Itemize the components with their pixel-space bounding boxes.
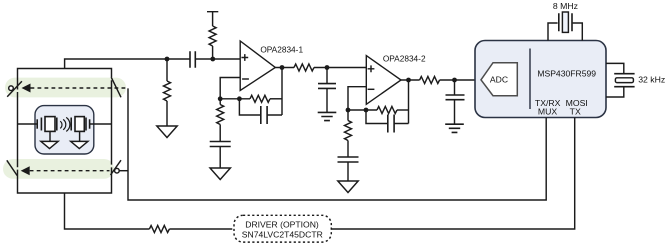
node xyxy=(364,108,369,113)
svg-text:MUX: MUX xyxy=(538,107,558,117)
capacitor C7 (ADC shunt) xyxy=(446,80,465,124)
resistor R4 (to gnd chain) xyxy=(217,99,224,142)
svg-text:OPA2834-2: OPA2834-2 xyxy=(383,54,426,64)
transducer frame (outer rectangle) xyxy=(18,69,112,194)
wire feedback vertical xyxy=(281,68,283,116)
horn right xyxy=(71,132,88,149)
node xyxy=(280,65,285,70)
wire midline left xyxy=(18,123,38,125)
node xyxy=(218,96,223,101)
wire RX from frame top xyxy=(65,59,190,69)
node xyxy=(237,96,242,101)
capacitor C5 (feedback) xyxy=(366,110,409,133)
MSP430FR599 MCU block xyxy=(475,41,606,118)
wire MOSI TX to driver xyxy=(330,118,575,230)
svg-text:DRIVER (OPTION): DRIVER (OPTION) xyxy=(245,219,319,229)
sound waves xyxy=(60,117,70,131)
transducer XDC2 (right) xyxy=(71,117,89,132)
wire midline right xyxy=(90,123,112,125)
op-amp U1A OPA2834-1 xyxy=(240,41,275,91)
resistor R5 (interstage) xyxy=(294,64,366,71)
green highlight band RX (top) xyxy=(5,78,126,98)
capacitor C6 xyxy=(338,157,359,181)
pin label TX/RX MUX xyxy=(535,98,561,117)
wire U1B output xyxy=(401,79,420,81)
capacitor C3 xyxy=(210,142,231,169)
svg-text:TX: TX xyxy=(570,107,581,117)
power rail bias xyxy=(207,12,218,26)
crystal Y2 32 kHz xyxy=(606,63,635,97)
node xyxy=(325,65,330,70)
wire inverting input U1B xyxy=(348,87,377,110)
pin label MOSI TX xyxy=(566,98,588,117)
capacitor C4 (interstage shunt) xyxy=(318,68,336,113)
svg-text:8 MHz: 8 MHz xyxy=(553,1,578,11)
resistor R7 (to gnd chain) xyxy=(345,110,352,157)
resistor R9 (driver series) xyxy=(149,226,232,233)
node xyxy=(165,57,170,62)
switch S3 (bottom-left) xyxy=(7,160,17,175)
wire inverting input U1A xyxy=(220,78,250,99)
switch S2 (top-right) xyxy=(111,77,121,97)
wire TX/RX MUX to switches xyxy=(128,88,546,200)
svg-text:OPA2834-1: OPA2834-1 xyxy=(260,44,303,54)
svg-text:SN74LVC2T45DCTR: SN74LVC2T45DCTR xyxy=(242,229,323,239)
resistor R1 (input shunt) xyxy=(164,59,171,126)
switch S1 (top-left) xyxy=(7,81,22,97)
ground xyxy=(157,126,177,138)
svg-text:32 kHz: 32 kHz xyxy=(638,75,665,85)
svg-text:ADC: ADC xyxy=(490,75,508,85)
green highlight band TX (bottom) xyxy=(3,159,114,179)
capacitor C1 (series input) xyxy=(190,51,240,68)
horn left xyxy=(41,132,58,149)
resistor R2 (bias pull-up) xyxy=(209,26,216,59)
node xyxy=(452,78,457,83)
node xyxy=(210,57,215,62)
driver block SN74LVC2T45DCTR xyxy=(234,215,331,242)
node xyxy=(406,78,411,83)
wire U1A output xyxy=(275,67,294,69)
node xyxy=(346,108,351,113)
op-amp U1B OPA2834-2 xyxy=(366,56,401,105)
divider xyxy=(529,49,531,110)
wire driver to transducer frame xyxy=(65,193,150,229)
ground xyxy=(338,181,358,193)
transducer XDC1 (left) xyxy=(37,117,57,132)
svg-text:MSP430FR599: MSP430FR599 xyxy=(537,69,596,79)
crystal Y1 8 MHz xyxy=(548,12,582,41)
capacitor C2 (feedback) xyxy=(239,99,282,124)
resistor R8 (ADC series) xyxy=(420,77,476,84)
resistor R6 (feedback) xyxy=(377,107,409,114)
dashed arrow RX xyxy=(22,84,126,93)
dashed arrow TX xyxy=(21,166,110,175)
ground xyxy=(210,168,230,180)
resistor R3 (feedback) xyxy=(250,95,282,102)
ground xyxy=(318,112,337,120)
wire feedback vertical xyxy=(408,80,410,124)
ground xyxy=(445,124,464,132)
ADC input port xyxy=(481,63,517,96)
switch S4 (bottom-right) xyxy=(111,160,129,175)
transducer pair box xyxy=(35,106,94,154)
